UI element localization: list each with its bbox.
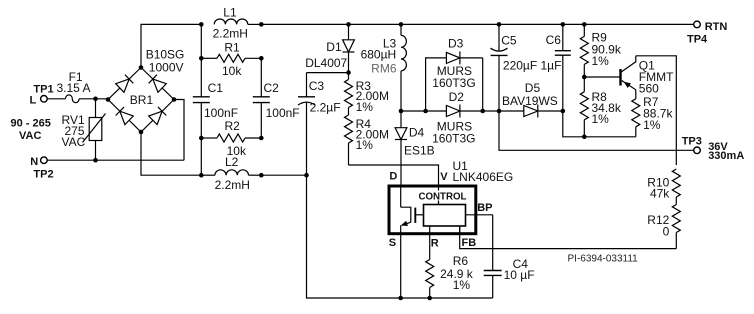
svg-text:2.2µF: 2.2µF [310, 101, 341, 115]
U1 FB inner wire [459, 226, 461, 234]
svg-text:D4: D4 [409, 126, 425, 140]
svg-text:C3: C3 [309, 79, 325, 93]
capacitor C3 [298, 73, 341, 176]
svg-text:C6: C6 [546, 33, 562, 47]
node R9 top [582, 22, 587, 27]
wire rail C6-R9 [563, 23, 585, 25]
diode D4 [395, 111, 435, 186]
diode D1 [305, 24, 354, 72]
wire Q1 base [584, 76, 620, 78]
svg-text:D5: D5 [525, 81, 541, 95]
resistor R4 [345, 108, 389, 166]
resistor R7 [632, 90, 674, 137]
svg-text:160T3G: 160T3G [432, 131, 475, 145]
U1 R wire [429, 226, 431, 260]
capacitor C5 [491, 24, 562, 111]
svg-text:R: R [431, 237, 439, 249]
svg-text:1%: 1% [356, 138, 374, 152]
svg-text:L2: L2 [225, 155, 239, 169]
wire Q1 collector [636, 56, 677, 165]
svg-text:RM6: RM6 [371, 62, 397, 76]
svg-text:330mA: 330mA [708, 150, 744, 162]
wire R4 to V pin [349, 165, 439, 186]
wire BR1 bottom to L2 rail [141, 132, 201, 175]
svg-text:D: D [389, 171, 397, 183]
node C3 bottom [304, 173, 309, 178]
wire D2 row left [401, 110, 446, 112]
svg-text:B10SG: B10SG [146, 47, 185, 61]
wire rail L3-C5 [401, 23, 499, 25]
svg-text:R6: R6 [453, 254, 469, 268]
svg-text:100nF: 100nF [266, 106, 300, 120]
svg-text:PI-6394-033111: PI-6394-033111 [568, 253, 639, 264]
node C2 top [259, 22, 264, 27]
svg-text:BP: BP [477, 202, 492, 214]
node L3 bottom [399, 109, 404, 114]
inductor L1 [213, 5, 262, 40]
terminal TP2 (N) [30, 156, 53, 181]
svg-text:L: L [30, 94, 37, 106]
node D1-C3-R3 [307, 70, 351, 75]
wire rail D1-L3 [349, 23, 402, 25]
node R9-R8 [582, 75, 587, 80]
schematic id [568, 253, 639, 264]
wire N rail [47, 158, 184, 163]
svg-text:BR1: BR1 [130, 93, 154, 107]
node C6 bottom [561, 109, 566, 114]
resistor R6 [426, 254, 474, 298]
svg-text:1%: 1% [356, 100, 374, 114]
svg-text:90 - 265: 90 - 265 [11, 118, 51, 130]
svg-text:1%: 1% [643, 118, 661, 132]
svg-text:220µF 1µF: 220µF 1µF [503, 58, 562, 72]
svg-text:1000V: 1000V [149, 60, 184, 74]
svg-text:S: S [389, 237, 396, 249]
bridge rectifier BR1 [106, 47, 185, 134]
resistor R10 [647, 169, 680, 205]
wire rail C2-D1 [261, 23, 348, 25]
svg-text:560: 560 [639, 81, 659, 95]
wire BR1 top to rail [141, 24, 201, 67]
input voltage label [11, 118, 51, 143]
svg-text:1%: 1% [592, 54, 610, 68]
terminal TP3 [682, 135, 745, 162]
transistor Q1 [621, 56, 675, 96]
svg-text:LNK406EG: LNK406EG [453, 170, 514, 184]
svg-text:100nF: 100nF [204, 106, 238, 120]
svg-text:D2: D2 [449, 90, 465, 104]
node D1 top [346, 22, 351, 27]
svg-text:RTN: RTN [705, 21, 728, 33]
svg-text:R1: R1 [224, 41, 240, 55]
inductor L2 [199, 138, 264, 192]
svg-text:V: V [440, 171, 448, 183]
svg-text:TP3: TP3 [682, 135, 702, 147]
svg-text:D3: D3 [448, 36, 464, 50]
capacitor C1 [193, 58, 238, 138]
wire rail C5-C6 [499, 23, 563, 25]
diode D5 [499, 81, 563, 118]
varistor RV1 [62, 99, 106, 160]
svg-text:R2: R2 [225, 119, 241, 133]
resistor R2 [199, 119, 264, 158]
svg-text:VAC: VAC [62, 135, 86, 149]
U1 control block [414, 191, 470, 227]
node L3 top [399, 22, 404, 27]
wire FB line [460, 226, 677, 249]
svg-text:10k: 10k [222, 64, 242, 78]
resistor R8 [580, 77, 622, 137]
resistor R3 [345, 73, 389, 114]
node C6 top [561, 22, 566, 27]
resistor R12 [647, 205, 680, 249]
node C5 top [497, 22, 502, 27]
svg-text:0: 0 [663, 225, 670, 239]
svg-text:160T3G: 160T3G [432, 76, 475, 90]
terminal TP1 (L) [30, 81, 91, 106]
capacitor C6 [546, 24, 571, 111]
wire C6 down [563, 111, 636, 137]
svg-text:DL4007: DL4007 [305, 56, 347, 70]
svg-text:VAC: VAC [19, 130, 41, 142]
resistor R1 [199, 24, 264, 78]
U1 mosfet [401, 186, 424, 226]
svg-text:N: N [30, 156, 38, 168]
node D2 left [423, 109, 428, 114]
inductor L3 [361, 24, 407, 111]
diode D3 branch [426, 36, 483, 111]
svg-text:TP2: TP2 [33, 168, 53, 180]
svg-text:C2: C2 [264, 81, 280, 95]
node L-RV1 [93, 97, 98, 102]
svg-text:1%: 1% [592, 112, 610, 126]
svg-text:C5: C5 [501, 34, 517, 48]
bottom source rail [398, 296, 492, 301]
diode D2 [432, 90, 499, 146]
svg-text:BAV19WS: BAV19WS [502, 94, 558, 108]
wire N to BR1 right [174, 100, 184, 161]
svg-text:C1: C1 [208, 81, 224, 95]
svg-text:L1: L1 [223, 5, 237, 19]
svg-text:2.2mH: 2.2mH [213, 26, 248, 40]
wire L2 to C3 [261, 174, 306, 176]
svg-text:2.2mH: 2.2mH [215, 178, 250, 192]
svg-text:D1: D1 [326, 40, 342, 54]
U1 V pin wire [438, 186, 440, 205]
fuse F1 [47, 70, 108, 103]
svg-text:47k: 47k [650, 187, 670, 201]
svg-text:CONTROL: CONTROL [419, 192, 467, 203]
svg-text:TP1: TP1 [33, 83, 53, 95]
node C1 top [199, 22, 204, 27]
capacitor C4 [484, 215, 535, 298]
svg-text:F1: F1 [69, 70, 83, 84]
svg-text:FB: FB [462, 237, 477, 249]
U1 S wire [400, 225, 402, 298]
U1 BP wire [466, 214, 493, 216]
node R8 bottom [582, 135, 587, 140]
svg-text:TP4: TP4 [687, 33, 708, 45]
wire rail R9-RTN [584, 23, 693, 25]
resistor R9 [580, 24, 622, 77]
svg-text:680µH: 680µH [361, 48, 397, 62]
svg-text:ES1B: ES1B [404, 143, 435, 157]
capacitor C2 [253, 58, 300, 138]
wire left ground drop [307, 175, 401, 298]
wire TP3 line [499, 111, 694, 150]
terminal TP4 RTN [687, 21, 727, 45]
node C5 bottom [497, 109, 502, 114]
svg-text:1%: 1% [453, 278, 471, 292]
svg-text:10 µF: 10 µF [504, 268, 535, 282]
IC U1 box [389, 159, 513, 249]
